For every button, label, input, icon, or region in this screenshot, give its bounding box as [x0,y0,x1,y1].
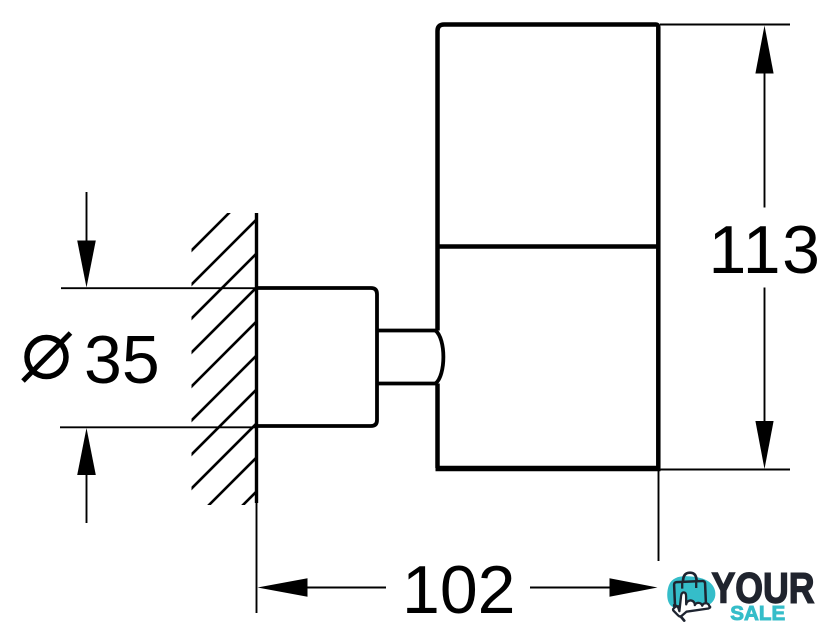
Ø35 lower extension line [60,426,256,428]
tumbler bottom line [436,466,661,471]
102 dimension line right segment [530,587,612,589]
YourSale logo bag body [674,581,706,607]
connector neck top line [377,329,436,333]
svg-text:35: 35 [84,322,160,398]
tumbler holder outline (left/top/right) [438,25,659,469]
diameter symbol circle [27,338,66,377]
YourSale logo hand [673,592,710,616]
svg-text:113: 113 [709,212,822,288]
Ø35 upper extension line [61,287,256,289]
YourSale logo bag handle [683,573,697,587]
tumbler mid rim line [439,244,657,249]
102 dimension arrowhead left [258,578,308,597]
tumbler left edge lower segment [435,384,440,469]
svg-text:SALE: SALE [730,602,785,625]
Ø35 lower arrow line [86,473,88,523]
102 dimension line left segment [305,587,386,589]
extension line below tumbler for 102 [658,471,660,561]
YourSale logo bag handle slots [682,582,696,588]
extension line bottom right for 113 [658,469,790,471]
113 dimension arrowhead up [755,26,773,74]
connector nose bulge [436,331,444,384]
102 dimension arrowhead right [610,578,658,597]
wall face line [255,213,258,503]
wall hatching [166,156,286,582]
113 dimension arrowhead down [755,421,773,469]
113 dimension line lower segment [764,288,766,425]
YourSale logo arm [674,605,684,620]
wall extension line down to 102 dimension [256,503,258,613]
wall mount body [257,288,378,426]
extension line top right for 113 [660,24,790,26]
Ø35 upper arrow line [86,192,88,243]
connector neck bottom line [377,382,436,386]
113 dimension line upper segment [764,70,766,208]
YourSale logo blob [667,576,715,609]
Ø35 lower arrowhead up [77,428,96,475]
diameter symbol slash [23,333,71,381]
svg-text:102: 102 [402,552,515,628]
Ø35 upper arrowhead down [77,241,96,288]
